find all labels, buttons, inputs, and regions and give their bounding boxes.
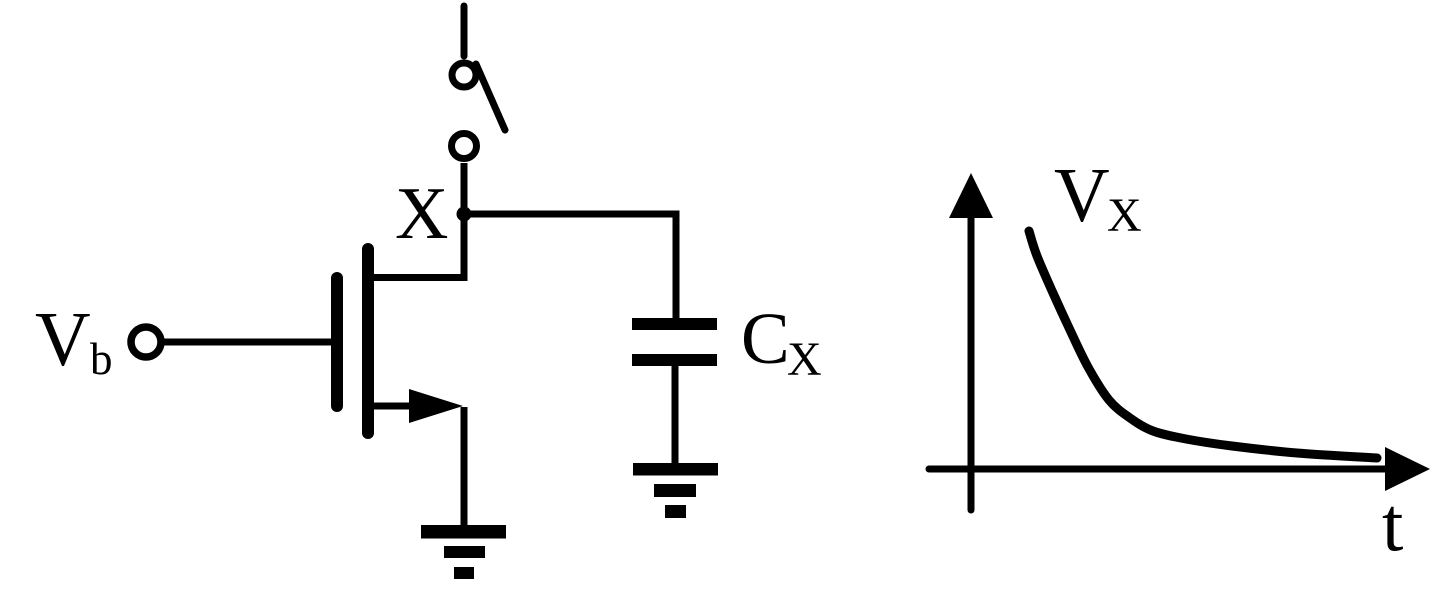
svg-text:X: X (787, 333, 822, 386)
graph x-axis with arrowhead (929, 447, 1430, 491)
wire: M1 source horizontal (368, 403, 440, 410)
capacitor CX top plate (632, 318, 717, 330)
transistor M1 channel bar (362, 249, 374, 433)
wire: M1 source to ground (461, 407, 468, 527)
curve VX(t) decaying (1029, 231, 1377, 458)
svg-text:b: b (90, 334, 113, 384)
ground symbol under CX (633, 463, 718, 518)
terminal Vb circle (131, 327, 161, 357)
svg-text:V: V (1054, 152, 1110, 238)
label Vb (35, 296, 113, 384)
node X junction dot (457, 207, 472, 222)
wire: top lead into switch (461, 6, 468, 56)
transistor M1 source arrow (409, 389, 463, 423)
wire: node X down to drain of M1 (461, 214, 468, 278)
wire: node X to capacitor CX (464, 214, 676, 318)
label CX (741, 298, 822, 386)
switch S1 bottom contact (452, 134, 477, 159)
switch S1 top contact (452, 63, 476, 87)
svg-text:C: C (741, 298, 790, 379)
svg-text:X: X (395, 173, 448, 255)
ground symbol under M1 source (421, 525, 506, 579)
label VX (1054, 152, 1142, 242)
wire: switch bottom contact to node X (461, 163, 468, 214)
svg-text:X: X (1107, 189, 1142, 242)
wire: M1 drain horizontal (368, 274, 468, 281)
transistor M1 gate bar (331, 278, 343, 406)
capacitor CX bottom plate (632, 354, 717, 366)
graph y-axis with arrowhead (949, 173, 993, 510)
wire: Vb terminal to gate (163, 339, 331, 346)
svg-text:V: V (35, 296, 91, 382)
switch S1 blade (open) (476, 64, 505, 130)
svg-text:t: t (1382, 481, 1403, 567)
wire: CX bottom plate to ground (672, 366, 679, 464)
